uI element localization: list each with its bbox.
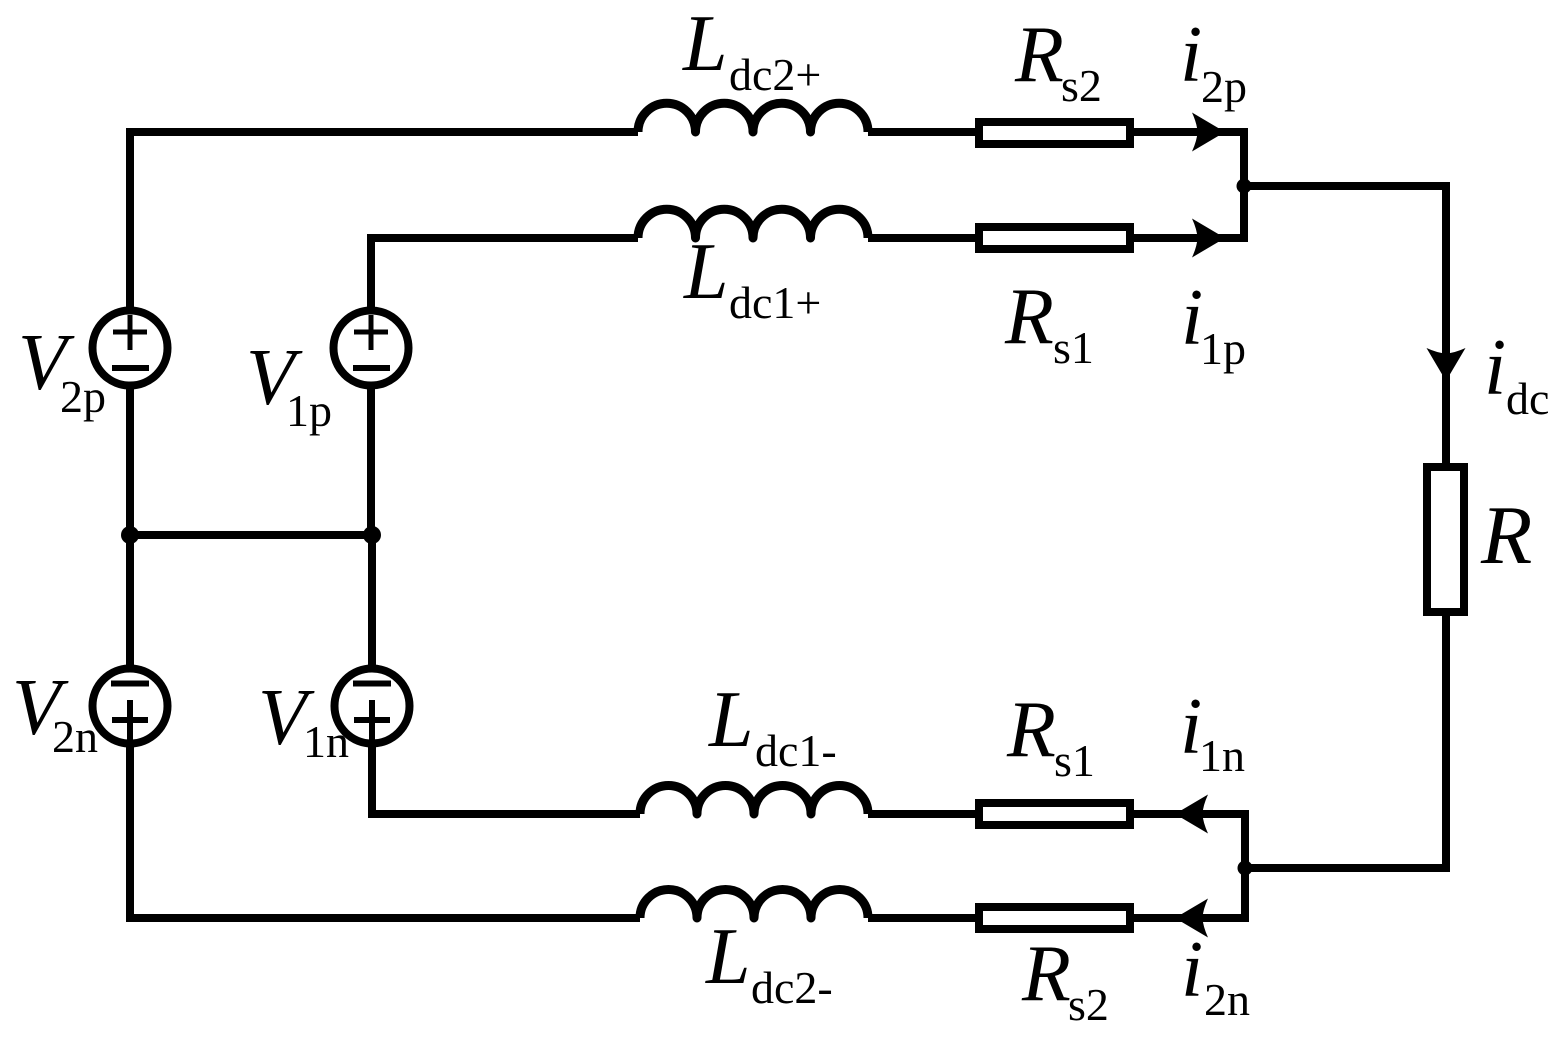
svg-text:s1: s1 — [1053, 322, 1094, 373]
resistor R_s1 lower — [979, 803, 1130, 825]
svg-text:1n: 1n — [303, 716, 349, 767]
svg-text:R: R — [1004, 273, 1054, 361]
voltage source V2n circle — [93, 669, 168, 744]
arrow i1p — [1192, 219, 1225, 258]
svg-text:dc1-: dc1- — [755, 725, 837, 776]
resistor R_s2 — [979, 122, 1130, 144]
wire bottom row1 corner — [868, 814, 1245, 868]
wire second row to corner up to node — [868, 186, 1244, 238]
wire node to right edge and down — [1244, 186, 1446, 467]
arrow i1n — [1175, 795, 1208, 834]
wire V1p branch top — [371, 238, 638, 312]
svg-text:1p: 1p — [1200, 323, 1246, 374]
svg-text:2p: 2p — [1201, 61, 1247, 112]
V1p plus sign — [354, 315, 388, 350]
svg-text:dc2-: dc2- — [751, 962, 833, 1013]
svg-text:dc2+: dc2+ — [729, 49, 821, 100]
svg-text:dc1+: dc1+ — [729, 277, 821, 328]
svg-text:i: i — [1180, 11, 1202, 99]
arrow i2n — [1175, 899, 1208, 938]
V2p minus sign — [112, 365, 149, 371]
svg-text:s2: s2 — [1068, 979, 1109, 1030]
resistor R_s1 — [979, 227, 1130, 249]
V1p minus sign — [353, 365, 390, 371]
inductor L_dc2+ — [638, 103, 868, 132]
wire top-left V2p branch — [130, 132, 638, 312]
wire top right to corner down to node — [868, 132, 1244, 186]
arrow idc — [1427, 348, 1466, 381]
V2p plus sign — [113, 315, 147, 350]
V2n minus sign — [111, 681, 149, 687]
wire V1n to bottom row1 — [372, 744, 640, 814]
V2n plus sign — [112, 700, 148, 740]
svg-text:1p: 1p — [286, 385, 332, 436]
node middle right — [363, 526, 381, 544]
svg-text:R: R — [1480, 489, 1532, 582]
svg-text:s1: s1 — [1054, 735, 1095, 786]
node junction top right — [1237, 179, 1252, 194]
node junction bottom right — [1238, 861, 1253, 876]
inductor L_dc1+ — [638, 209, 868, 238]
svg-text:R: R — [1014, 11, 1064, 99]
inductor L_dc1- — [640, 786, 868, 815]
svg-text:2n: 2n — [1204, 974, 1250, 1025]
svg-text:1n: 1n — [1199, 730, 1245, 781]
voltage source V1n circle — [335, 669, 410, 744]
wire bottom row2 corner — [868, 868, 1245, 918]
wire middle to V1n top — [368, 535, 376, 668]
svg-text:L: L — [683, 228, 729, 316]
svg-text:s2: s2 — [1061, 60, 1102, 111]
node middle left — [121, 526, 139, 544]
svg-text:i: i — [1484, 324, 1506, 412]
svg-text:dc: dc — [1506, 373, 1549, 424]
V1n plus sign — [354, 700, 390, 740]
wire V1p bottom to middle — [367, 386, 375, 539]
wire V2n to bottom row2 — [130, 744, 640, 918]
arrow i2p — [1192, 113, 1225, 152]
svg-text:2p: 2p — [60, 371, 106, 422]
wire below R down to bottom corner — [1245, 616, 1446, 868]
svg-text:L: L — [682, 0, 728, 88]
voltage source V1p circle — [334, 311, 409, 386]
wire V2p bottom to middle — [126, 386, 134, 539]
inductor L_dc2- — [640, 890, 868, 919]
svg-text:i: i — [1181, 926, 1203, 1014]
resistor R_s2 lower — [979, 907, 1130, 929]
resistor R — [1427, 467, 1464, 612]
V1n minus sign — [353, 681, 391, 687]
voltage source V2p circle — [93, 311, 168, 386]
svg-text:L: L — [705, 913, 751, 1001]
svg-text:2n: 2n — [52, 711, 98, 762]
wire middle horizontal — [130, 531, 372, 539]
svg-text:R: R — [1021, 930, 1071, 1018]
svg-text:L: L — [708, 676, 754, 764]
wire middle to V2n top — [126, 535, 134, 668]
svg-text:R: R — [1006, 686, 1056, 774]
